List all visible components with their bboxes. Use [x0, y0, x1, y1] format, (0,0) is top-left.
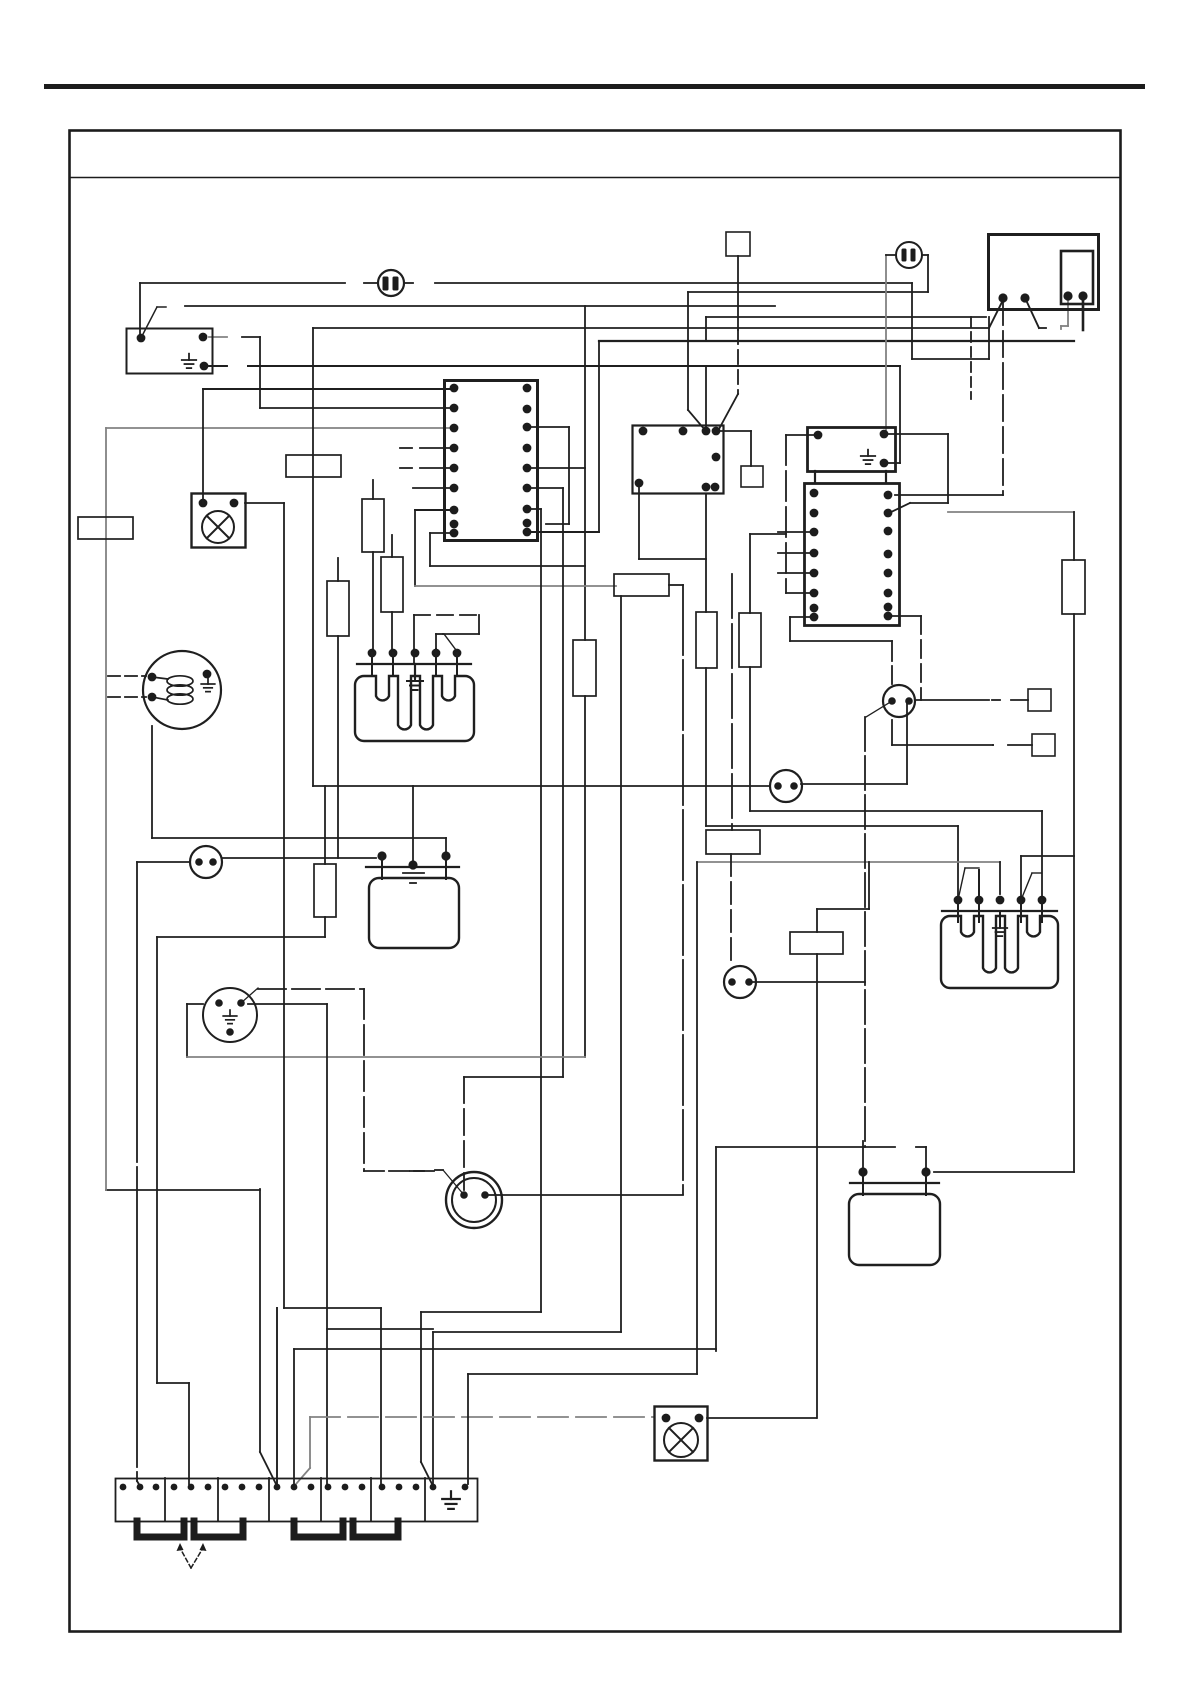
wire stub pin5 — [420, 467, 454, 469]
wire x869 — [868, 862, 870, 909]
thermostat T4 inner — [452, 1178, 496, 1222]
element E2 dot2 — [441, 851, 450, 860]
lamp N cross — [207, 516, 230, 539]
lamp N dot left — [199, 499, 208, 508]
wire x817 long — [816, 954, 818, 1418]
wire y1171 — [364, 1170, 437, 1172]
wire x1068 foot — [1061, 325, 1068, 327]
wire bus y408 — [260, 407, 454, 409]
wire T3 right lead — [801, 783, 907, 785]
connector symbol C1 circle — [378, 270, 404, 296]
element E1 ground stem — [414, 664, 416, 678]
lamp N dot right — [230, 499, 239, 508]
lamp L2 cross — [669, 1428, 693, 1452]
wire stub pin4 dash — [400, 447, 412, 449]
wire x313 drop — [312, 328, 314, 786]
wire L2a bus y292 — [688, 291, 928, 293]
wire x294 — [293, 1349, 295, 1484]
wire x1003 drop — [1002, 299, 1004, 495]
wire y989 — [258, 988, 364, 990]
motor M1 dot tr — [203, 670, 212, 679]
wire y1077 — [464, 1076, 563, 1078]
wire L1 bus y283 d — [435, 282, 912, 284]
wire y811 — [750, 810, 1042, 812]
wire bus y328 tick — [1039, 327, 1046, 329]
link arrow — [177, 1543, 207, 1568]
wire R3 bracket — [531, 426, 569, 428]
label box Rc — [739, 613, 761, 667]
switch S1 dot right top — [199, 333, 208, 342]
wire bracket vert — [568, 427, 570, 524]
element E1 body — [355, 676, 474, 741]
wire x738 square drop — [737, 256, 739, 330]
relay box K — [808, 428, 896, 472]
wire Rf right stub — [669, 584, 683, 586]
wire x1083 drop — [1082, 297, 1085, 330]
connector sq Sb — [1032, 734, 1055, 756]
wire gray y1057 — [187, 1056, 585, 1058]
wire diag260 — [260, 1452, 276, 1484]
wire x971 — [970, 317, 972, 399]
relay box R1 — [633, 426, 724, 494]
element E3 stubs — [958, 870, 1042, 922]
wire x1074 mid — [1073, 614, 1075, 1172]
wire x468 — [467, 1374, 469, 1484]
wire y1190 — [106, 1189, 260, 1191]
element E1 stubs — [372, 649, 457, 676]
timer lead 3 foot — [1060, 326, 1062, 329]
connector C2 right stub — [922, 254, 928, 256]
wire x1068 gray drop — [1067, 297, 1069, 326]
page top rule — [44, 84, 1145, 89]
wire x392 to elem1 — [391, 612, 393, 653]
wire x697 long — [696, 862, 698, 1374]
wire y745 — [892, 744, 993, 746]
wire x892 upper — [891, 641, 893, 684]
terminal divider 6 — [424, 1478, 426, 1521]
wire y359 zigzag — [912, 358, 989, 360]
wire bracket bottom — [546, 523, 569, 525]
terminal divider 3 — [268, 1478, 270, 1521]
wire pinL8 stub — [790, 616, 814, 618]
label box Re — [706, 830, 760, 854]
label box Rh — [573, 640, 596, 696]
title bar divider — [70, 177, 1120, 179]
wire x892 lower — [891, 720, 893, 745]
wire x338 upper — [337, 558, 339, 581]
wire x585 spine lower — [584, 696, 586, 1057]
wire x284 lamp drop — [283, 503, 285, 1308]
wire x683 — [682, 585, 684, 1194]
thermostat T4 outer — [446, 1172, 502, 1228]
wire y337 to x260 — [242, 336, 260, 338]
wire diag dot1 box — [989, 300, 1003, 328]
wire boxK stub feet2 — [885, 471, 887, 483]
block L left pins — [810, 489, 819, 622]
timer dot 4 — [1078, 291, 1087, 300]
wire y1374 — [468, 1373, 697, 1375]
connector sq F2 — [741, 466, 763, 487]
element E4 dot2 — [921, 1167, 930, 1176]
thermostat T4 right stub — [489, 1194, 502, 1196]
wire x325 rectP feed — [324, 786, 326, 864]
wire y826 — [706, 825, 958, 827]
element E1 lever5 — [444, 634, 456, 650]
wire y634 — [443, 633, 479, 635]
wire x790 — [789, 617, 791, 641]
element E1 dot4 tick — [435, 634, 437, 649]
motor M1 dot l1 — [148, 673, 157, 682]
wire relay out right — [717, 430, 751, 432]
thermostat T5 right lead — [222, 857, 376, 859]
connector C1 bars — [383, 277, 399, 291]
element E3 lever4 — [1021, 873, 1032, 900]
lamp L2 box — [655, 1407, 708, 1461]
jumper bracket 4 — [353, 1521, 398, 1537]
wire pinR9 stub — [531, 531, 599, 533]
connector C2 left stub — [886, 254, 896, 256]
lamp L2 dot left — [662, 1414, 671, 1423]
element E2 bus — [366, 866, 459, 868]
wire x1021 to elem3 — [1020, 856, 1022, 897]
wire L stubs y553 — [778, 552, 814, 554]
wire x140 drop to switch — [139, 283, 141, 336]
sq Sa dash stub — [992, 699, 1000, 701]
wire stub pin6 — [413, 487, 454, 489]
wire x433 — [432, 1332, 434, 1484]
element E2 dot1 — [377, 851, 386, 860]
wire x750 above — [749, 534, 751, 613]
timer dot 1 — [998, 293, 1007, 302]
label box Rd — [696, 612, 717, 668]
wire y434 — [887, 433, 948, 435]
element E4 stub2 — [925, 1172, 927, 1195]
wire x1042 to elem3 — [1041, 811, 1043, 897]
terminal divider 4 — [320, 1478, 322, 1521]
element E3 lever1 tick — [965, 867, 979, 869]
element E2 stub1 — [381, 856, 383, 879]
programmer block H — [445, 381, 538, 541]
relay K dot 3 — [880, 459, 889, 468]
wire diag310 — [296, 1468, 310, 1484]
wire x732 drop — [731, 574, 733, 830]
socket M2 ground — [223, 1010, 237, 1024]
thermostat T5 circle — [190, 846, 222, 878]
element E4 stub1 — [862, 1172, 864, 1195]
wire sq1 drop — [750, 431, 752, 466]
wire T1 right lead — [916, 699, 989, 701]
wire y856 branch — [1021, 855, 1074, 857]
wire diag dot2 box — [1026, 300, 1039, 328]
switch S1 dot right bottom — [200, 362, 209, 371]
wire bus y366 — [248, 365, 900, 367]
lamp L2 circle — [664, 1423, 698, 1457]
sq Sb stub — [1008, 744, 1032, 746]
wire x364 — [363, 989, 365, 1171]
wire stub pin5 dash — [400, 467, 412, 469]
wire x157 long — [156, 937, 158, 1383]
wire x907 link — [906, 700, 908, 784]
wire y1147 — [716, 1146, 895, 1148]
wire y1308 — [284, 1307, 381, 1309]
connector sq E — [726, 232, 750, 256]
label box Ra — [362, 499, 384, 552]
element E3 lever1 — [958, 868, 965, 900]
lamp N box — [192, 494, 246, 548]
wire y566 — [430, 565, 585, 567]
wire pinL6 stub — [786, 592, 814, 594]
wire x912 zigzag — [911, 283, 913, 359]
motor M1 lead1 — [108, 675, 146, 677]
wire T4 lever tick — [435, 1169, 443, 1171]
element E2 stub2 — [445, 856, 447, 879]
wire x900 drop — [899, 366, 901, 463]
wire L stubs y573 — [778, 572, 814, 574]
wire x921 drop — [920, 616, 922, 700]
wire bus y328 — [313, 327, 989, 329]
wire y1383 — [157, 1382, 189, 1384]
element E3 dots — [954, 896, 1047, 905]
motor M1 dot l2 — [148, 693, 157, 702]
wire L1 bus y283 c — [404, 282, 413, 284]
wire x381 — [380, 1308, 382, 1484]
element E4 dot1 — [858, 1167, 867, 1176]
wire bus y317 — [706, 316, 986, 318]
wire diag relay1 — [688, 410, 705, 430]
jumper bracket 3 — [294, 1521, 343, 1537]
wire x706 below rectRd — [705, 668, 707, 826]
wire sw stub y366 — [209, 365, 227, 367]
wire x479 — [478, 615, 480, 634]
timer box T — [989, 235, 1099, 310]
connector symbol C2 circle — [896, 242, 922, 268]
wire S_a stub — [1011, 699, 1028, 701]
wire x989 zigzag — [988, 317, 990, 359]
wire R6 stub — [531, 487, 563, 489]
wire x137 T5 to terminal — [136, 862, 138, 1481]
wire x750 below — [749, 667, 751, 811]
wire x392 upper — [391, 535, 393, 557]
wire x958 to elem3 — [957, 826, 959, 897]
terminal divider 1 — [164, 1478, 166, 1521]
wire diag421 — [421, 1462, 432, 1484]
element E1 dots — [368, 649, 462, 658]
wire x106 gray long — [105, 428, 107, 1190]
wire x639 drop — [638, 483, 640, 559]
wire x187 motor stub — [187, 1003, 203, 1005]
connector C2 bars — [902, 249, 916, 262]
relay K dot 1 — [814, 431, 823, 440]
wire gray bus y428 — [106, 427, 454, 429]
wire x706 to rectRd — [705, 494, 707, 612]
element E3 ground stem — [999, 911, 1001, 926]
element E4 feed — [862, 1141, 864, 1172]
block L right pins — [884, 491, 893, 621]
wire pin9 corner — [429, 533, 431, 566]
wire pinR1 wire — [895, 494, 1003, 496]
wire x541 — [540, 509, 542, 1312]
socket M2 dots — [215, 999, 245, 1036]
wire L1 bus y283 b — [364, 282, 378, 284]
switch S1 lever — [141, 307, 157, 338]
element E1 ground — [407, 674, 423, 690]
wire x599 drop — [598, 341, 600, 532]
wire x414 to elem1 — [413, 615, 415, 664]
motor M1 lead2 — [108, 696, 146, 698]
wire x886 fuse to relay — [885, 255, 887, 433]
thermostat T1 dots — [888, 697, 913, 705]
wire x260 switch to bus — [259, 337, 261, 408]
wire x415 pin7 to gray — [414, 510, 416, 586]
wire pinR5 stub — [531, 467, 585, 469]
wire x731 to T2 — [730, 854, 732, 964]
wire x688 drop — [687, 292, 689, 410]
label box Rc2 — [381, 557, 403, 612]
wire x421 — [420, 1312, 422, 1462]
terminal strip box — [116, 1479, 478, 1522]
label box Rf — [614, 574, 669, 596]
wire x706 link — [705, 317, 707, 341]
wire T4 lever — [443, 1170, 464, 1195]
wire lamp2 right lead — [707, 1417, 816, 1419]
wire y786 main — [313, 785, 770, 787]
connector sq Sa — [1028, 689, 1051, 711]
thermostat T2 dots — [728, 978, 753, 986]
programmer H left pins — [450, 384, 459, 538]
label box O — [78, 517, 133, 539]
wire motor2 right lead — [248, 1003, 327, 1005]
motor M1 ground — [201, 678, 215, 692]
programmer H right pins — [523, 384, 532, 537]
wire x187 drop — [186, 1004, 188, 1057]
wire x189 to term — [188, 1383, 190, 1484]
wire x1074 main right — [1073, 512, 1075, 560]
switch block L — [805, 484, 900, 626]
wire y1172 boiler — [934, 1171, 1074, 1173]
jumper bracket 1 — [137, 1521, 184, 1537]
wire x926 drop — [925, 1147, 927, 1170]
relay K dot 2 — [880, 430, 889, 439]
wire y463 to boxK — [886, 462, 900, 464]
lamp N circle — [202, 511, 234, 543]
wire x310 drop — [309, 1417, 311, 1468]
wire x738 square drop dash — [737, 330, 739, 394]
motor M1 circle — [143, 651, 221, 729]
wire x325 below rectP — [324, 917, 326, 937]
switch S1 lever tick — [157, 306, 166, 308]
wire sw stub y337 — [209, 336, 227, 338]
socket M2 circle — [203, 988, 257, 1042]
wire x563 — [562, 488, 564, 1077]
element E3 lever4 tick — [1032, 872, 1041, 874]
wire x260 drop — [259, 1189, 261, 1452]
element E1 bus — [357, 663, 471, 665]
jumper bracket 2 — [194, 1521, 243, 1537]
wire bus y389 — [203, 388, 454, 390]
wire y1349 — [294, 1348, 716, 1350]
wire stub pin4 — [420, 447, 454, 449]
thermostat T3 circle — [770, 770, 802, 802]
wire T2 right lead — [753, 981, 865, 983]
timer dot 3 — [1063, 291, 1072, 300]
wire x948 — [947, 434, 949, 503]
wire y738 link — [992, 744, 994, 746]
wire T4 right lead — [502, 1194, 683, 1196]
wire x786 boxK drop — [785, 435, 787, 593]
wire y513 gray — [948, 511, 1074, 513]
wire y503 — [910, 502, 948, 504]
lamp L2 dot right — [695, 1414, 704, 1423]
wire boxK left stub — [786, 434, 818, 436]
wire x1000 to elem3 — [999, 862, 1001, 894]
switch S1 ground — [182, 354, 196, 368]
wire x716 up — [715, 1147, 717, 1351]
switch S1 box — [127, 329, 213, 374]
wire gray y862 — [697, 861, 1000, 863]
element E2 center dot — [408, 860, 417, 869]
wire diag relay2 — [719, 394, 738, 429]
element E2 body — [369, 878, 459, 948]
wire y909 — [817, 908, 869, 910]
wire y615 dash — [414, 614, 479, 616]
wire x817 upper — [816, 909, 818, 932]
element E3 ground — [993, 922, 1007, 936]
wire boxK stub feet — [814, 471, 816, 483]
terminal ground — [442, 1491, 460, 1509]
wire pin9 stub — [430, 532, 454, 534]
terminal divider 5 — [370, 1478, 372, 1521]
thermostat T2 circle — [724, 966, 756, 998]
wire y1329 — [327, 1328, 433, 1330]
wire T1 lever — [866, 701, 892, 717]
wire x327 long — [326, 1004, 328, 1484]
wire y1312 — [421, 1311, 541, 1313]
element E3 bus — [942, 910, 1057, 912]
timer inner box — [1061, 251, 1093, 304]
thermostat T5 dots — [195, 858, 217, 866]
terminal dots — [120, 1484, 469, 1491]
wire x446 elem2 — [445, 838, 447, 854]
element E4 bus — [850, 1182, 939, 1184]
wire bus y341 — [599, 340, 1074, 342]
wire y937 — [157, 936, 325, 938]
wire x706 bus to relay — [705, 366, 707, 431]
wire x413 elem2 feed — [412, 786, 414, 863]
switch S1 pivot dot — [137, 334, 146, 343]
wire L stubs y532 — [778, 531, 814, 533]
relay R1 dots — [635, 427, 721, 492]
timer dot 2 — [1020, 293, 1029, 302]
wire diag137 — [137, 1481, 140, 1486]
wire x865 long — [864, 717, 866, 1147]
wire gray y1417 — [310, 1416, 654, 1418]
wire x464 T4 feed — [463, 1077, 465, 1190]
wire y1332 — [433, 1331, 621, 1333]
wire x373 upper — [372, 480, 374, 499]
wire x277 — [276, 1308, 278, 1484]
wire x373 to elem1 — [372, 552, 374, 653]
wire y1171 dash left — [410, 1170, 424, 1172]
thermostat T3 dots — [774, 782, 798, 790]
label box Rb — [327, 581, 349, 636]
wire y838 — [152, 837, 446, 839]
lamp N feed — [202, 389, 204, 503]
label box M — [286, 455, 341, 477]
wire y641 — [790, 640, 892, 642]
wire x585 spine — [584, 306, 586, 640]
wire fuse right drop — [927, 255, 929, 292]
socket M2 lever — [241, 988, 258, 1003]
